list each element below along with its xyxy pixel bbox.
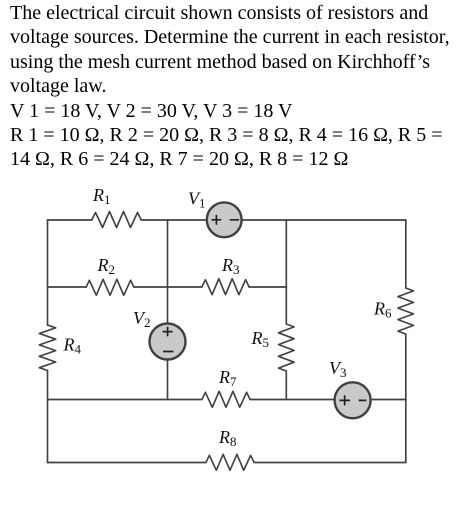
svg-text:R8: R8 (218, 427, 237, 449)
resistor R2 (86, 279, 134, 295)
svg-text:R2: R2 (97, 255, 116, 277)
voltage source V2 (150, 324, 186, 360)
resistor R8 (206, 454, 254, 470)
resistor R3 (202, 279, 249, 295)
resistor R4 (39, 325, 55, 371)
resistor R7 (202, 391, 250, 407)
wire third horizontal (48, 399, 407, 401)
svg-text:R6: R6 (373, 299, 392, 321)
wire right vertical (405, 220, 407, 463)
svg-text:R5: R5 (251, 328, 270, 350)
wire R5 branch vertical (285, 220, 287, 400)
svg-text:R4: R4 (63, 335, 82, 357)
resistor R5 (279, 324, 295, 371)
voltage source V1 (207, 202, 242, 237)
resistor R6 (398, 288, 414, 334)
voltage source V3 (335, 382, 371, 418)
svg-text:R7: R7 (218, 367, 237, 389)
wire bottom horizontal (48, 462, 407, 464)
svg-text:V1: V1 (188, 189, 206, 211)
wire top horizontal (48, 219, 407, 221)
wire second horizontal (48, 286, 287, 288)
wire left vertical (47, 220, 49, 463)
svg-text:R3: R3 (221, 255, 240, 277)
resistor R1 (92, 212, 141, 228)
svg-text:V3: V3 (329, 358, 347, 380)
wire middle vertical (167, 220, 169, 400)
svg-text:R1: R1 (92, 185, 111, 207)
svg-text:V2: V2 (133, 308, 151, 330)
